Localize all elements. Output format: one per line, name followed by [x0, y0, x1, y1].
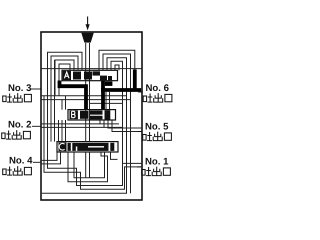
leader No.1: [137, 166, 141, 168]
left loop to bottom and outlet No.1 upper: [48, 100, 143, 186]
channel loop upper-left 1: [48, 52, 83, 99]
distributor housing outline: [41, 32, 142, 200]
channel loop upper-left 2: [51, 56, 78, 142]
grease channel A-right down to B (filled): [101, 81, 105, 110]
upper cross channel: [41, 68, 142, 70]
piston cylinder B: [68, 110, 116, 120]
channel loop upper-right 4: [111, 61, 123, 163]
svg-text:No. 2: No. 2: [8, 120, 31, 131]
leader No.4: [33, 161, 41, 163]
svg-text:No. 4: No. 4: [9, 156, 33, 167]
left loop to bottom and outlet No.1 lower: [44, 96, 142, 189]
wire left bundle leg: [54, 60, 56, 142]
leg above B right 2: [109, 92, 111, 110]
grease channel step: [105, 82, 113, 86]
channel loop upper-left 3: [55, 60, 74, 96]
piston cylinder A: [62, 70, 118, 80]
outlet No.5 channel lower line: [112, 120, 142, 132]
outlet No.2 channel lower line: [41, 126, 123, 128]
svg-text:No. 1: No. 1: [145, 157, 169, 168]
inlet funnel port: [81, 33, 94, 43]
mid cross channel: [90, 102, 123, 104]
leg below B 1: [99, 120, 101, 124]
outlet No.4 channel lower line: [41, 152, 61, 164]
piston cylinder C: [57, 142, 118, 152]
bottom U channel under C: [74, 152, 105, 178]
leg B-left to C 3: [65, 120, 67, 142]
leg above B right 1: [105, 92, 107, 110]
outlet No.4 channel upper line: [41, 152, 57, 160]
outlet No.3 channel lower line: [41, 99, 131, 101]
grease channel right riser (filled): [133, 70, 137, 91]
bottom channel from C right: [68, 152, 108, 182]
channel stub upper-right inner: [115, 65, 119, 70]
inlet flow arrow: [86, 17, 90, 31]
grease channel to outlet No.6 (filled): [101, 88, 141, 92]
stub under C right end: [111, 152, 118, 159]
channel loop upper-right 2: [103, 54, 131, 193]
channel loop upper-right 1: [99, 50, 135, 70]
leader No.5: [138, 131, 142, 133]
leg above B left 1: [61, 100, 63, 110]
leader No.6: [138, 91, 143, 93]
svg-text:No. 5: No. 5: [145, 122, 169, 133]
outlet No.5 channel upper line: [108, 120, 142, 128]
leader No.3: [31, 88, 41, 90]
channel loop upper-right 3: [42, 58, 127, 194]
outlet No.3 channel upper line: [41, 95, 127, 97]
leader No.2: [32, 125, 41, 127]
grease channel A-left to B (filled): [60, 81, 87, 110]
supply line tails under C: [86, 152, 90, 178]
leg B-left to C 1: [58, 120, 60, 142]
leg B-left to C 2: [61, 120, 63, 142]
svg-text:No. 6: No. 6: [146, 83, 169, 94]
svg-text:No. 3: No. 3: [8, 83, 31, 94]
main supply line (center pair): [86, 43, 90, 142]
channel loop upper-left 4: [59, 64, 70, 96]
outlet No.2 channel upper line: [41, 123, 119, 125]
leg below B 2: [103, 120, 105, 127]
leg above B left 2: [65, 96, 67, 110]
